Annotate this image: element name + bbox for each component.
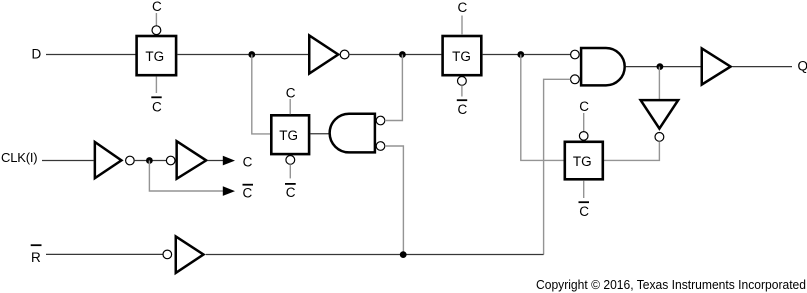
junction J6 bbox=[400, 251, 407, 258]
svg-text:C: C bbox=[152, 0, 162, 14]
bubble TG2 bottom bbox=[286, 156, 295, 165]
bubble G1 input top bbox=[376, 116, 385, 125]
wire D to TG1 bbox=[46, 54, 137, 56]
svg-text:C: C bbox=[458, 102, 468, 117]
node Cbar label below TG3 bbox=[457, 100, 468, 117]
wire TG2 bottom stub bbox=[289, 164, 291, 178]
node Cbar label below TG1 bbox=[151, 97, 162, 114]
svg-text:CLK(I): CLK(I) bbox=[1, 150, 37, 165]
inverter A4 (clock) bbox=[95, 142, 122, 178]
bubble TG3 bottom bbox=[458, 77, 467, 86]
svg-text:Copyright © 2016, Texas Instru: Copyright © 2016, Texas Instruments Inco… bbox=[536, 277, 806, 292]
wire NAND output to TG2 bbox=[310, 133, 331, 135]
wire buffer to Q bbox=[733, 66, 793, 68]
bubble TG1 top bbox=[152, 26, 161, 35]
bubble G2 input bottom bbox=[571, 75, 580, 84]
wire C stub to TG2 top bbox=[289, 99, 291, 114]
svg-text:TG: TG bbox=[279, 128, 298, 143]
svg-text:C: C bbox=[152, 100, 162, 115]
node Rbar input label bbox=[31, 245, 42, 265]
wire C stub to TG1 top bubble bbox=[155, 13, 157, 26]
wire A1 output to TG3 bbox=[349, 54, 441, 56]
node Cbar label below TG4 bbox=[579, 202, 590, 219]
inverter A3 (down) bbox=[641, 100, 679, 129]
nand gate G1 (mirrored, inputs right) bbox=[330, 114, 375, 153]
wire J4 down to inverter A3 bbox=[658, 67, 660, 99]
svg-text:C: C bbox=[458, 0, 468, 15]
wire C stub to TG3 top bbox=[461, 16, 463, 35]
bubble G1 input bottom bbox=[376, 142, 385, 151]
wire G1 top input to J2 bbox=[385, 55, 403, 121]
wire TG4 bottom stub bbox=[583, 181, 585, 198]
wire reset rail bbox=[206, 254, 544, 256]
junction J4 bbox=[657, 63, 664, 70]
wire CLK to inverter A4 bbox=[42, 160, 94, 162]
buffer A2 output bbox=[702, 48, 731, 84]
bubble TG4 top bbox=[579, 132, 588, 141]
inverter A6 (reset) bbox=[176, 236, 204, 273]
wire TG3 bottom stub bbox=[461, 85, 463, 96]
arrow to Cbar bbox=[223, 186, 235, 196]
node Cbar label below TG2 bbox=[285, 184, 296, 200]
svg-text:TG: TG bbox=[145, 49, 164, 64]
svg-text:C: C bbox=[579, 204, 589, 219]
junction J5 bbox=[146, 157, 153, 164]
svg-text:C: C bbox=[243, 155, 253, 170]
transmission gate TG2 bbox=[271, 115, 309, 154]
junction J2 bbox=[399, 51, 406, 58]
bubble A5 input bbox=[166, 156, 175, 165]
svg-text:C: C bbox=[286, 85, 296, 100]
svg-text:D: D bbox=[32, 46, 42, 61]
wire TG1 output to junction J1 bbox=[177, 54, 310, 56]
svg-text:TG: TG bbox=[573, 154, 592, 169]
svg-text:R: R bbox=[31, 250, 41, 265]
node Cbar clock output label bbox=[243, 185, 254, 201]
wire J5 down to Cbar arrow bbox=[149, 161, 225, 192]
wire C stub to TG4 top bubble bbox=[583, 113, 585, 131]
inverter A1 (master) bbox=[309, 36, 338, 74]
wire TG3 output to AND gate bbox=[483, 54, 571, 56]
wire reset rail up to G2 bottom input bbox=[544, 79, 571, 254]
svg-text:Q: Q bbox=[798, 58, 807, 73]
wire A3 output to TG4 bbox=[604, 141, 659, 160]
wire Rbar to inverter A6 bbox=[46, 253, 163, 255]
wire G1 bottom input to reset rail bbox=[385, 146, 404, 255]
transmission gate TG3 bbox=[443, 36, 482, 75]
svg-text:C: C bbox=[579, 99, 589, 114]
svg-text:C: C bbox=[243, 186, 253, 201]
wire TG1 bottom stub bbox=[155, 76, 157, 93]
bubble A3 output bbox=[655, 133, 664, 142]
bubble G2 input top bbox=[571, 50, 580, 59]
transmission gate TG1 bbox=[137, 36, 177, 75]
and gate G2 bbox=[581, 48, 625, 85]
inverter A5 (clock buffer) bbox=[177, 141, 207, 179]
junction J3 bbox=[517, 51, 524, 58]
wire A4 to junction J5 bbox=[134, 160, 166, 162]
wire A5 output to C arrow bbox=[208, 160, 224, 162]
bubble A6 input bbox=[163, 250, 172, 259]
transmission gate TG4 bbox=[565, 142, 603, 180]
wire J1 down to TG2 input bbox=[252, 55, 270, 134]
wire G2 output to buffer bbox=[626, 66, 701, 68]
svg-text:TG: TG bbox=[452, 49, 471, 64]
bubble A4 output bbox=[126, 156, 135, 165]
bubble inverter A1 output bbox=[340, 50, 349, 59]
svg-text:C: C bbox=[286, 185, 296, 200]
wire J3 down to TG4 input bbox=[521, 55, 564, 161]
junction J1 bbox=[248, 51, 255, 58]
arrow to C bbox=[223, 156, 235, 166]
